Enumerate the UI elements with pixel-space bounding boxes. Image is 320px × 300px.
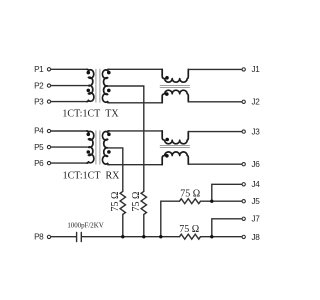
terminal J4 bbox=[242, 180, 260, 189]
transformer T2 secondary phase dot 1 bbox=[107, 133, 111, 137]
transformer T1 primary winding bbox=[87, 69, 94, 101]
svg-text:J2: J2 bbox=[252, 98, 261, 107]
terminal P2 bbox=[34, 81, 51, 90]
svg-text:1CT:1CT TX: 1CT:1CT TX bbox=[62, 109, 119, 120]
resistor R4 75 ohm horizontal on bus bbox=[180, 234, 201, 239]
svg-text:P5: P5 bbox=[34, 143, 44, 152]
svg-text:J5: J5 bbox=[252, 197, 261, 206]
svg-text:P6: P6 bbox=[34, 159, 44, 168]
svg-text:1CT:1CT RX: 1CT:1CT RX bbox=[63, 170, 121, 181]
wire R4 to J8 bbox=[201, 236, 242, 238]
junction dot J7/J8 node bbox=[210, 235, 213, 238]
transformer T1 secondary phase dot 1 bbox=[107, 71, 111, 75]
choke L2 core bbox=[160, 145, 190, 147]
terminal P4 bbox=[34, 127, 51, 136]
choke L1 top phase dot bbox=[165, 76, 169, 80]
svg-text:75 Ω: 75 Ω bbox=[131, 192, 142, 212]
wire R3 to J5 bbox=[201, 200, 242, 202]
terminal J7 bbox=[242, 215, 260, 224]
transformer T2 secondary phase dot 2 bbox=[107, 150, 111, 154]
resistor R1 75 ohm vertical bbox=[120, 191, 125, 236]
wire TX secondary center tap bbox=[108, 86, 144, 191]
wire P1 lead bbox=[51, 68, 87, 70]
wire ground bus bbox=[82, 236, 180, 238]
common-mode choke L1 top winding bbox=[162, 69, 188, 82]
transformer T1 primary phase dot 1 bbox=[87, 71, 91, 75]
svg-text:75 Ω: 75 Ω bbox=[110, 192, 121, 212]
transformer T1 primary phase dot 2 bbox=[87, 89, 91, 93]
svg-text:J7: J7 bbox=[252, 215, 261, 224]
transformer T1 secondary winding bbox=[102, 69, 109, 103]
choke L1 bottom phase dot bbox=[165, 92, 169, 96]
wire choke to J6 bbox=[188, 163, 241, 165]
wire RX secondary bottom to choke bbox=[108, 164, 163, 166]
terminal P5 bbox=[34, 143, 51, 152]
wire RX secondary center tap bbox=[108, 148, 123, 192]
svg-text:1000pF/2KV: 1000pF/2KV bbox=[67, 222, 103, 229]
svg-text:75 Ω: 75 Ω bbox=[180, 188, 200, 199]
svg-text:J8: J8 bbox=[252, 233, 261, 242]
common-mode choke L1 bottom winding bbox=[162, 90, 188, 103]
choke L1 core bbox=[160, 85, 190, 87]
svg-text:P8: P8 bbox=[34, 233, 44, 242]
junction dot upper termination bus bbox=[159, 235, 162, 238]
transformer T1 secondary phase dot 2 bbox=[107, 89, 111, 93]
terminal P6 bbox=[34, 159, 51, 168]
common-mode choke L2 bottom winding bbox=[162, 152, 188, 165]
svg-text:J3: J3 bbox=[252, 127, 261, 136]
terminal J1 bbox=[242, 65, 260, 74]
terminal P1 bbox=[34, 65, 51, 74]
svg-text:J1: J1 bbox=[252, 65, 261, 74]
terminal P3 bbox=[34, 97, 51, 106]
capacitor C1 1000pF/2KV bbox=[77, 232, 82, 241]
wire choke to J2 bbox=[188, 101, 241, 103]
wire choke to J1 bbox=[188, 68, 241, 70]
transformer T1 core bbox=[95, 69, 97, 103]
resistor R2 75 ohm vertical bbox=[141, 191, 146, 236]
wire P2 lead bbox=[51, 85, 87, 87]
wire P4 lead bbox=[51, 130, 87, 132]
svg-text:J4: J4 bbox=[252, 180, 261, 189]
resistor R3 75 ohm horizontal bbox=[180, 199, 201, 204]
svg-text:75 Ω: 75 Ω bbox=[179, 224, 199, 235]
wire junction to J7 bbox=[212, 219, 242, 237]
junction dot R1 bus bbox=[121, 235, 124, 238]
svg-text:J6: J6 bbox=[252, 160, 261, 169]
terminal J6 bbox=[242, 160, 260, 169]
wire TX secondary top to choke bbox=[108, 68, 163, 70]
terminal P8 bbox=[34, 233, 51, 242]
terminal J8 bbox=[242, 233, 260, 242]
junction dot J4/J5 node bbox=[210, 200, 213, 203]
wire upper termination corner bbox=[161, 201, 180, 237]
terminal J3 bbox=[242, 127, 260, 136]
terminal J5 bbox=[242, 197, 260, 206]
svg-text:P4: P4 bbox=[34, 127, 44, 136]
transformer T2 primary phase dot 1 bbox=[87, 133, 91, 137]
transformer T2 primary phase dot 2 bbox=[87, 150, 91, 154]
wire TX secondary bottom to choke bbox=[108, 102, 163, 104]
common-mode choke L2 top winding bbox=[162, 131, 188, 144]
transformer T2 core bbox=[95, 131, 97, 165]
wire P3 lead bbox=[51, 101, 87, 103]
wire RX secondary top to choke bbox=[108, 130, 163, 132]
terminal J2 bbox=[242, 98, 260, 107]
wire choke to J3 bbox=[188, 131, 241, 133]
junction dot R2 bus bbox=[142, 235, 145, 238]
wire junction to J4 bbox=[212, 184, 242, 201]
choke L2 top phase dot bbox=[165, 138, 169, 142]
wire P5 lead bbox=[51, 146, 87, 148]
svg-text:P2: P2 bbox=[34, 81, 44, 90]
transformer T2 primary winding bbox=[87, 131, 94, 163]
svg-text:P1: P1 bbox=[34, 65, 44, 74]
svg-text:P3: P3 bbox=[34, 97, 44, 106]
wire P6 lead bbox=[51, 162, 87, 164]
wire P8 to capacitor bbox=[51, 236, 76, 238]
choke L2 bottom phase dot bbox=[165, 154, 169, 158]
transformer T2 secondary winding bbox=[102, 131, 109, 165]
